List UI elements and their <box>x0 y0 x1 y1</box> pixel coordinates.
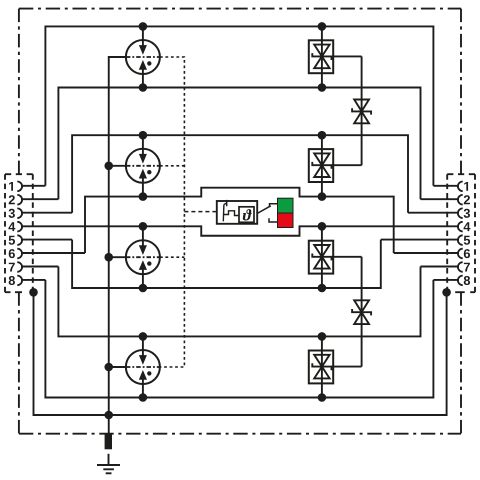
node V2 top <box>318 131 327 140</box>
enclosure dash-dot border left lower <box>18 292 20 434</box>
label 4 left <box>8 222 15 231</box>
wire pin L1 <box>21 185 45 187</box>
label 1 left <box>9 182 13 191</box>
label 5 right <box>464 236 470 245</box>
wire rail 2t <box>72 135 408 213</box>
node G2 top <box>139 131 148 140</box>
node G1 top <box>139 22 148 31</box>
label 8 left <box>9 276 15 285</box>
wire pin L7 <box>21 266 58 268</box>
node V3 bottom <box>318 284 327 293</box>
label 8 right <box>464 276 470 285</box>
wire pin R8 <box>433 279 459 281</box>
wire pin R5 <box>381 239 459 241</box>
wire rail 4b <box>45 280 433 398</box>
terminal R6 arc <box>458 249 463 259</box>
terminal L5 arc <box>17 235 22 245</box>
wire pin R2 <box>421 198 460 200</box>
node V3 top <box>318 222 327 231</box>
thermal disconnect monitoring box <box>184 200 277 224</box>
thermal sensor theta glyph <box>243 209 252 220</box>
indicator switch lever <box>257 206 271 214</box>
node G2 bottom <box>139 192 148 201</box>
node G3 bottom <box>139 284 148 293</box>
wire rail 3t with module jog <box>21 226 459 235</box>
terminal R2 arc <box>458 195 463 205</box>
node left block earth <box>29 288 38 297</box>
status indicator green field <box>278 198 294 213</box>
node V4 top <box>318 332 327 341</box>
wire pin R6 <box>394 252 459 254</box>
node G4 top <box>139 332 148 341</box>
terminal arcs and numbers left <box>17 182 462 286</box>
label 2 right <box>464 195 470 204</box>
node V2 bottom <box>318 192 327 201</box>
terminal L2 arc <box>17 195 22 205</box>
indicator bottom contact <box>269 218 278 222</box>
suppressor diode box V1 <box>309 26 362 87</box>
ground symbol <box>97 454 120 474</box>
node bus G4 <box>104 363 113 372</box>
enclosure dash-dot border bottom <box>19 433 461 435</box>
decoupling diode D2 <box>352 257 371 367</box>
terminal L6 arc <box>17 249 22 259</box>
suppressor diode box V3 <box>309 226 362 288</box>
enclosure earth stub black bar <box>105 434 112 450</box>
gas discharge tube G2 <box>109 135 160 196</box>
earth electrode bus <box>109 57 126 434</box>
decoupling diode D1 <box>352 56 371 165</box>
enclosure dash-dot border right lower <box>460 292 462 434</box>
node G1 bottom <box>139 83 148 92</box>
terminal R5 arc <box>458 235 463 245</box>
wire rail 3b <box>72 240 381 288</box>
wire pin R1 <box>433 185 459 187</box>
dashed sensing link to chamber <box>184 211 216 213</box>
node right block earth <box>442 288 451 297</box>
wire pin L8 <box>21 279 45 281</box>
label 1 right <box>464 182 468 191</box>
label 3 right <box>464 209 470 218</box>
chamber stub GDT3 <box>160 256 185 258</box>
wire pin L5 <box>21 239 72 241</box>
wire earth rail <box>34 292 447 415</box>
wire rail 1b <box>58 88 420 200</box>
wire pin R3 <box>408 212 459 214</box>
wire pin L2 <box>21 198 58 200</box>
gas discharge tube G3 <box>109 226 160 288</box>
label 6 left <box>9 249 15 258</box>
node V1 bottom <box>318 83 327 92</box>
label 7 left <box>9 263 15 272</box>
terminal R8 arc <box>458 276 463 286</box>
wire rail 4t <box>58 267 420 337</box>
label 4 right <box>464 222 471 231</box>
thermal switch blade <box>223 200 226 221</box>
terminal R3 arc <box>458 208 463 218</box>
terminal L1 arc <box>17 182 22 192</box>
status indicator red field <box>278 213 294 228</box>
node V4 bottom <box>318 393 327 402</box>
label 2 left <box>9 195 15 204</box>
node bus earth rail <box>104 411 113 420</box>
node bus G2 <box>104 162 113 171</box>
mechanical linkage squarewave <box>224 211 239 216</box>
label 6 right <box>464 249 470 258</box>
enclosure dash-dot border top <box>19 8 461 10</box>
wire pin R7 <box>421 266 460 268</box>
wire rail 2b with module jog <box>85 188 394 253</box>
thermal sensor inner box <box>239 207 254 223</box>
gas discharge tube G1 <box>126 26 160 87</box>
terminal R4 arc <box>458 222 463 232</box>
suppressor diode box V4 <box>309 336 362 397</box>
enclosure dash-dot border left upper <box>18 9 20 175</box>
chamber stub GDT2 <box>160 165 185 167</box>
node G4 bottom <box>139 393 148 402</box>
terminal L3 arc <box>17 208 22 218</box>
wire pin L6 <box>21 252 85 254</box>
suppressor diode box V2 <box>309 135 362 196</box>
gas discharge tube G4 <box>109 336 160 397</box>
wire rail 1t <box>45 26 433 185</box>
enclosure dash-dot border right upper <box>460 9 462 175</box>
gas discharge tube chamber dashed link <box>160 57 185 367</box>
node V1 top <box>318 22 327 31</box>
terminal L4 arc <box>17 222 22 232</box>
terminal R1 arc <box>458 182 463 192</box>
wire pin L3 <box>21 212 72 214</box>
terminal L8 arc <box>17 276 22 286</box>
node G3 top <box>139 222 148 231</box>
indicator top contact <box>270 204 278 207</box>
terminal R7 arc <box>458 262 463 272</box>
node bus G3 <box>104 253 113 262</box>
terminal L7 arc <box>17 262 22 272</box>
label 5 left <box>9 236 15 245</box>
label 7 right <box>464 263 470 272</box>
right terminal block dashed box <box>447 173 475 175</box>
left terminal block dashed box <box>5 173 33 175</box>
label 3 left <box>9 209 15 218</box>
